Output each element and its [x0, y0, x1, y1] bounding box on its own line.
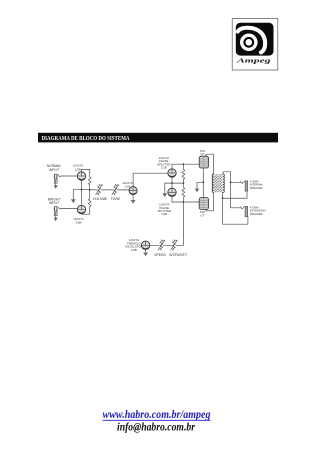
wire bright input to V2 [61, 208, 77, 210]
jack SP2 tip hook [240, 207, 244, 210]
label NORMAL INPUT [47, 164, 62, 172]
tube V2 [77, 205, 85, 213]
wire V1 plate to resistor R1 [82, 169, 90, 177]
node speaker tip junction [230, 181, 232, 183]
svg-text:Ampeg: Ampeg [235, 58, 270, 65]
wire return node to jack SP2 sleeve [223, 198, 248, 224]
wire V5 plate to power tube PT2 [172, 197, 199, 203]
node V1/V2 junction [81, 189, 83, 191]
wire tip node down to jack SP2 [231, 182, 241, 208]
wire V6 to speed pot [150, 244, 159, 246]
svg-text:info@habro.com.br: info@habro.com.br [117, 422, 195, 434]
label tube V3 [122, 181, 132, 188]
node rail mid [183, 182, 185, 184]
wire junction to volume pot [90, 189, 97, 191]
transformer T1 primary coil [212, 174, 213, 193]
jack J2 tip hook [58, 207, 61, 209]
wire junction to ground arrow [73, 190, 81, 200]
svg-text:1/2B: 1/2B [75, 167, 81, 171]
svg-text:1/2B: 1/2B [76, 220, 82, 224]
wire PT2 to transformer primary bottom [206, 193, 214, 211]
wire secondary top to jack node [223, 172, 231, 183]
potentiometer VOLUME [96, 184, 103, 194]
svg-text:TONE: TONE [111, 197, 121, 201]
resistor R2 [88, 190, 91, 207]
svg-text:SPEED: SPEED [154, 253, 166, 257]
transformer T1 core [213, 174, 222, 192]
label 6V6 top [200, 149, 205, 156]
svg-text:GT: GT [201, 152, 205, 156]
jack J2 bright input [54, 207, 58, 221]
schematic [47, 149, 266, 257]
tube V3 [129, 187, 137, 195]
ground arrow below V6 [143, 253, 148, 257]
svg-text:SPEAKER: SPEAKER [250, 186, 263, 190]
wire V3 plate to V4 grid [133, 173, 168, 187]
wire V1 cathode to V2 [81, 180, 83, 204]
wire splitter bias crossbar [165, 182, 184, 184]
svg-text:INPUT: INPUT [49, 201, 60, 205]
jack SP1 internal speaker [245, 181, 248, 191]
title bar [38, 133, 278, 143]
node mixing junction [89, 189, 91, 191]
svg-text:DIAGRAMA DE BLOCO DO SISTEMA: DIAGRAMA DE BLOCO DO SISTEMA [42, 136, 131, 142]
resistor R1 [88, 177, 91, 190]
potentiometer INTENSITY [171, 240, 178, 250]
wire V4 cathode line [171, 177, 173, 188]
wire V3 ground stem [132, 195, 134, 200]
power tube PT1 [199, 156, 208, 168]
wire cathode junction to mixing rail [82, 189, 90, 191]
label tube V1 [73, 164, 83, 172]
potentiometer SPEED [158, 240, 165, 250]
wire tone to V3 [117, 189, 129, 191]
label BRIGHT INPUT [48, 197, 62, 205]
node power cathode junction [202, 181, 204, 183]
svg-text:VOLUME: VOLUME [93, 197, 108, 201]
node rail top [183, 163, 185, 165]
node speaker return junction [222, 197, 224, 199]
label phase splitter top [157, 156, 170, 170]
svg-text:1/2B: 1/2B [161, 166, 167, 170]
potentiometer TONE [112, 184, 119, 194]
ground arrow below V3 [131, 200, 136, 204]
label tube V2 [73, 217, 83, 224]
jack J1 normal input [54, 174, 58, 188]
wire V4 plate to power tube PT1 [172, 164, 199, 169]
transformer T1 secondary coil [223, 174, 224, 193]
jack SP1 tip hook [241, 181, 245, 184]
wire volume to tone [101, 189, 113, 191]
resistor R3 rail upper [182, 164, 185, 183]
ground arrow power stage [195, 189, 200, 193]
svg-text:INPUT: INPUT [49, 168, 60, 172]
wire V6 ground stem [145, 250, 147, 253]
hyperlink www.habro.com.br/ampeg [103, 409, 211, 421]
label internal speaker [250, 179, 264, 190]
wire secondary bottom to return node [222, 193, 224, 199]
label 6V6 bottom [200, 210, 205, 217]
node rail bottom [183, 201, 185, 203]
svg-text:GT: GT [201, 213, 205, 217]
wire speed to intensity [164, 244, 172, 246]
tube V4 phase splitter top [168, 169, 176, 177]
tube V1 [77, 172, 85, 180]
wire PT1 cathode to PT2 [202, 168, 204, 198]
tube V6 tremolo [141, 241, 149, 249]
wire cathode junction to ground [197, 182, 203, 188]
wire tip node to jack SP1 [231, 181, 241, 183]
node splitter crossbar [171, 182, 173, 184]
tube V5 phase splitter bottom [168, 188, 176, 196]
wire intensity to rail [176, 244, 178, 246]
wire normal input to V1 [61, 175, 77, 177]
svg-text:1/2B: 1/2B [131, 248, 137, 252]
power tube PT2 [199, 198, 208, 210]
svg-text:1/2B: 1/2B [161, 212, 167, 216]
svg-text:SPEAKER: SPEAKER [250, 212, 263, 216]
Ampeg logo [232, 19, 278, 71]
wire PT1 to transformer primary top [206, 154, 214, 174]
resistor R4 rail lower [182, 183, 185, 202]
label tremolo oscillator [125, 238, 142, 252]
wire V2 plate to resistor R2 [82, 207, 90, 215]
ground arrow splitter [162, 193, 167, 197]
jack SP2 extension speaker [245, 206, 248, 216]
wire rail to tremolo [178, 202, 183, 245]
svg-text:www.habro.com.br/ampeg: www.habro.com.br/ampeg [103, 409, 211, 421]
wire return node to jack SP1 sleeve [223, 191, 247, 198]
jack J1 tip hook [58, 175, 61, 177]
svg-text:INTENSITY: INTENSITY [169, 253, 188, 257]
ground arrow left of V1/V2 [71, 199, 76, 203]
wire bias arrow stem [164, 183, 166, 193]
label extension speaker [250, 205, 266, 216]
label phase splitter bottom [158, 203, 171, 217]
